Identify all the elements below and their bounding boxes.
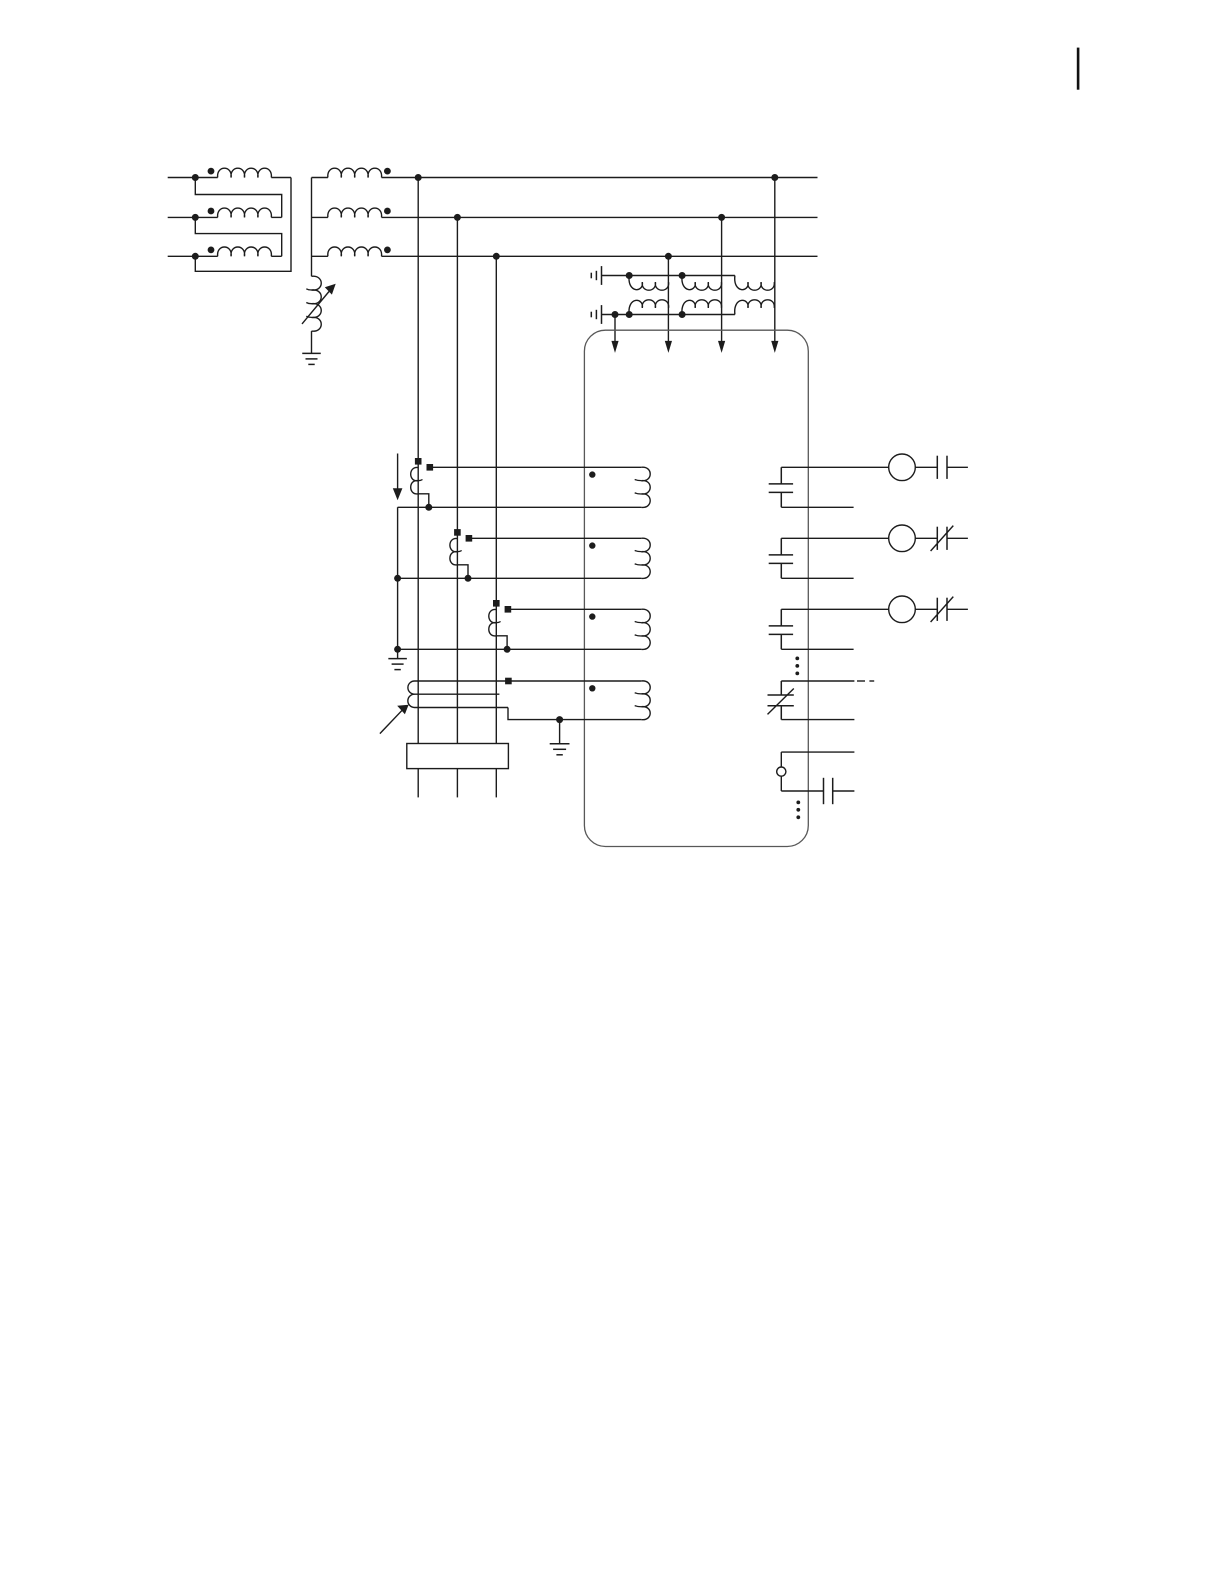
wire: circle B2 to contact — [915, 537, 937, 539]
node: VT row 2 tap a — [626, 311, 633, 318]
dashed continuation — [857, 680, 865, 682]
relay aux coil 3 — [641, 609, 650, 649]
wire: contact b3 right lead — [947, 608, 968, 610]
wire: incoming phase B line — [168, 216, 218, 218]
node: phase C delta junction — [192, 253, 199, 260]
relay output 1 bottom lead — [781, 506, 853, 508]
node: CT3 return junction — [504, 646, 511, 653]
node: CT1 return junction — [425, 504, 432, 511]
wire: phase A bus — [382, 177, 818, 179]
relay aux coil 4 — [641, 681, 650, 720]
relay aux coil 2 — [641, 538, 650, 578]
relay output 3 bottom lead — [781, 648, 853, 650]
wire: winding C right lead — [271, 255, 281, 257]
wire: CT2 return bus to relay coil 2 — [398, 577, 642, 579]
wire: phase B feeder drop — [456, 217, 458, 743]
device circle B2 — [889, 525, 916, 552]
relay output 4 bottom lead — [781, 719, 854, 721]
node: bus A VT tap — [771, 174, 778, 181]
wire: CT3 return bus to relay coil 3 — [398, 648, 642, 650]
node: bus B CT tap — [454, 214, 461, 221]
CT1 polarity squares — [415, 458, 422, 465]
CT2 secondary coil — [450, 538, 458, 564]
wire: phase A cable below box — [417, 769, 419, 798]
wire: VT row 1 neutral bus — [602, 275, 735, 277]
ground: core CT return earth — [559, 720, 561, 744]
wire: CT1 secondary bottom lead — [418, 494, 429, 508]
device circle B1 (trip coil) — [889, 454, 916, 481]
VT secondary winding 1a — [629, 276, 669, 291]
wire: VT phase C drop into relay — [667, 256, 669, 343]
node: bus B VT tap — [718, 214, 725, 221]
node: bus A CT tap — [415, 174, 422, 181]
wire: phase B bus — [382, 216, 818, 218]
wire: reactor to ground — [311, 331, 313, 353]
wire: phase C cable below box — [495, 769, 497, 798]
wire: CT1 return bus to relay coil 1 — [398, 506, 642, 508]
wire: VT phase B drop into relay — [721, 217, 723, 343]
relay aux coil 1 — [641, 467, 650, 507]
wire: CT common return vertical — [397, 507, 399, 658]
transformer secondary winding phase A (wye) — [312, 177, 328, 179]
relay capacitor C2 — [769, 538, 793, 578]
wire: CT2 secondary top lead to relay coil 2 — [469, 537, 641, 539]
node: VT row 2 tap b — [679, 311, 686, 318]
wire: incoming phase A line — [168, 177, 218, 179]
wire: phase B cable below box — [456, 769, 458, 798]
node: VT row 2 neutral tap — [612, 311, 619, 318]
device circle B3 — [889, 596, 916, 623]
ellipsis dots below output 5 — [796, 801, 800, 805]
transformer primary winding phase A (delta) — [218, 168, 272, 177]
VT secondary winding 1b — [682, 276, 722, 291]
transformer secondary winding phase B (wye) — [312, 216, 328, 218]
wire: VT row 2 neutral bus — [602, 314, 735, 316]
contact b2 (normally closed) — [936, 527, 938, 550]
wire: core CT bottom lead to relay coil 4 — [508, 708, 641, 720]
transformer primary winding phase C (delta) — [218, 247, 272, 256]
wire: winding A right lead — [271, 177, 291, 179]
wire: phase A feeder drop — [417, 178, 419, 744]
wire: circle B1 to contact — [915, 466, 937, 468]
ground: VT secondary row 2 — [601, 305, 603, 324]
CT2 polarity squares — [454, 529, 461, 536]
core-balance CT winding turn 2 — [415, 693, 500, 695]
relay output 5 bottom lead with capacitor C5 — [781, 790, 823, 792]
wire: VT phase A drop into relay — [774, 178, 776, 343]
wire: contact a1 right lead — [947, 466, 968, 468]
annotation arrow at core CT — [380, 709, 404, 734]
relay variable capacitor C4 — [768, 681, 794, 720]
node: phase B delta junction — [192, 214, 199, 221]
node: CT3 return on common — [394, 646, 401, 653]
core-balance CT winding turn 1 — [415, 680, 509, 682]
relay output 2 bottom lead — [781, 577, 853, 579]
wire: contact b2 right lead — [947, 537, 968, 539]
ground: reactor earth — [302, 352, 321, 354]
relay box (rounded rectangle) — [584, 330, 808, 846]
ellipsis dots (more outputs) — [795, 657, 799, 661]
node: VT row 1 tap b — [679, 272, 686, 279]
wire: phase C bus — [382, 255, 818, 257]
wire: winding B right lead — [271, 216, 281, 218]
wire: delta link phase B to winding C right end — [195, 217, 281, 256]
relay capacitor C3 — [769, 609, 793, 649]
page crop mark (top right vertical bar) — [1077, 48, 1080, 90]
contact a1 (normally open) — [936, 456, 938, 479]
wire: CT2 secondary bottom lead — [457, 565, 468, 579]
relay output 4 top lead — [781, 680, 854, 682]
transformer secondary winding phase C (wye) — [312, 255, 328, 257]
current direction arrow at CT1 — [397, 454, 399, 491]
VT secondary winding 2c — [735, 300, 775, 315]
wire: circle B3 to contact — [915, 608, 937, 610]
variable grounding reactor — [312, 276, 322, 331]
VT secondary winding 1c — [735, 276, 775, 291]
cable termination box — [407, 744, 509, 769]
ground: CT common return earth — [388, 658, 407, 660]
wire: delta link phase A to winding B right end — [195, 178, 281, 218]
wire: CT3 secondary top lead to relay coil 3 — [508, 608, 641, 610]
relay output 2 top lead — [781, 537, 888, 539]
node: CT2 return junction — [465, 575, 472, 582]
node: CT2 return on common — [394, 575, 401, 582]
relay output 3 top lead — [781, 608, 888, 610]
wire: phase C feeder drop — [495, 256, 497, 743]
wire: CT3 secondary bottom lead — [496, 636, 507, 650]
wire: core CT top lead to relay coil 4 — [508, 680, 641, 682]
wire: delta link phase C to winding A right end — [195, 178, 291, 272]
VT secondary winding 2b — [682, 300, 722, 315]
CT3 polarity squares — [493, 600, 500, 607]
wire: CT1 secondary top lead to relay coil 1 — [430, 466, 641, 468]
VT secondary winding 2a — [629, 300, 669, 315]
transformer primary winding phase B (delta) — [218, 208, 272, 217]
contact b3 (normally closed) — [936, 598, 938, 621]
node: bus C CT tap — [493, 253, 500, 260]
node: bus C VT tap — [665, 253, 672, 260]
ground: VT secondary row 1 — [601, 266, 603, 285]
node: VT row 1 tap a — [626, 272, 633, 279]
relay output 1 top lead — [781, 466, 888, 468]
CT3 secondary coil — [489, 609, 497, 635]
wire: incoming phase C line — [168, 255, 218, 257]
core-balance CT polarity square — [505, 678, 512, 685]
node: core CT return ground tap — [556, 716, 563, 723]
relay output 5 left branch with pilot circle — [780, 752, 782, 767]
wire: wye common vertical — [311, 178, 313, 277]
wire: VT neutral drop into relay — [614, 315, 616, 343]
node: phase A delta junction — [192, 174, 199, 181]
relay capacitor C1 — [769, 467, 793, 507]
CT1 secondary coil — [411, 467, 419, 493]
relay output 5 top lead — [781, 751, 854, 753]
